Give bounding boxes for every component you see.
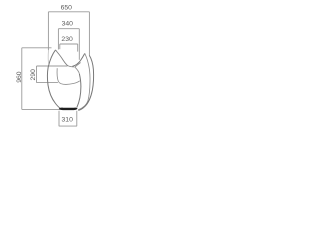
svg-text:650: 650 bbox=[61, 5, 73, 12]
inner rim arc (left side and bottom) bbox=[57, 68, 80, 84]
extension line 340 left bbox=[57, 29, 59, 50]
extension line 310 right bbox=[76, 111, 78, 126]
outer flare edge left (faint) bbox=[47, 50, 49, 64]
extension line 650 right bbox=[88, 12, 90, 55]
dimension 960 line bbox=[21, 48, 23, 110]
extension line 230 left bbox=[59, 44, 61, 49]
extension line 290 bottom bbox=[37, 82, 58, 84]
right petal right edge F bbox=[78, 53, 90, 109]
extension line 960 top bbox=[22, 47, 52, 49]
base bar bbox=[59, 108, 78, 110]
extension line 290 top bbox=[37, 65, 68, 67]
tulip body left silhouette (petal left edge down to base) bbox=[47, 50, 60, 108]
inner silhouette E below junction bbox=[77, 74, 81, 108]
dimension 310 line bbox=[59, 125, 77, 127]
extension line 230 right bbox=[77, 44, 79, 52]
dimension 340 line bbox=[58, 28, 79, 30]
svg-text:230: 230 bbox=[61, 36, 73, 43]
dimension 230 line bbox=[60, 43, 78, 45]
left petal right edge (steep part then flat knee) bbox=[56, 50, 74, 67]
outer flare / body right silhouette G bbox=[78, 55, 93, 110]
extension line 960 bottom bbox=[22, 108, 60, 110]
extension line 340 right bbox=[78, 29, 80, 60]
right petal inner edge (V fold at overlap vertex) bbox=[75, 63, 81, 74]
dimension 650 line bbox=[48, 11, 89, 13]
extension line 310 left bbox=[58, 111, 60, 126]
svg-text:310: 310 bbox=[62, 117, 74, 124]
svg-text:340: 340 bbox=[62, 20, 74, 27]
extension line 650 left bbox=[47, 12, 49, 51]
dimension 290 line bbox=[36, 66, 38, 83]
right petal left edge B (sweeps down-left over the left petal) bbox=[72, 53, 84, 66]
